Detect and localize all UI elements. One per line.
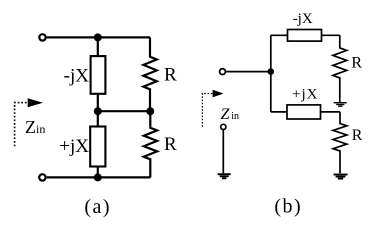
Zin arrow (a) dotted guide bbox=[15, 103, 28, 147]
svg-text:R: R bbox=[164, 134, 177, 155]
wire from -jX box to mid node bbox=[97, 94, 99, 112]
svg-text:R: R bbox=[351, 54, 362, 71]
wire top branch to -jX box (b) bbox=[271, 34, 288, 36]
reactance -jX box (a) bbox=[91, 56, 106, 94]
svg-text:+jX: +jX bbox=[59, 136, 89, 157]
svg-text:(a): (a) bbox=[84, 196, 111, 218]
reactance +jX box (b) bbox=[287, 105, 321, 119]
node top junction (a) bbox=[94, 33, 102, 41]
label R1 bbox=[164, 65, 177, 86]
caption (b) bbox=[274, 196, 302, 218]
wire from +jX box to bottom rail bbox=[97, 167, 99, 178]
caption (a) bbox=[84, 196, 111, 218]
label R3 bbox=[351, 54, 362, 71]
Zin arrow (b) dotted guide bbox=[202, 94, 213, 127]
svg-text:-jX: -jX bbox=[64, 65, 90, 86]
wire vertical branch stem (b) bbox=[270, 35, 272, 112]
wire from terminal to junction (b) bbox=[226, 71, 271, 73]
svg-text:-jX: -jX bbox=[293, 11, 313, 27]
resistor R2 (a bottom right) bbox=[144, 111, 157, 177]
wire bottom rail (a) bbox=[47, 176, 151, 178]
resistor R3 (b top) bbox=[333, 35, 347, 102]
label Zin (b) bbox=[221, 106, 239, 123]
label -jX (a) bbox=[64, 65, 90, 86]
svg-text:+jX: +jX bbox=[292, 87, 318, 103]
wire mid rail (a) bbox=[98, 110, 151, 112]
ground G1 (below R3) bbox=[334, 103, 347, 107]
terminal T1 (top-left open circle) bbox=[39, 34, 45, 40]
wire from -jX box to R3 (b) bbox=[322, 34, 340, 36]
svg-text:Z: Z bbox=[221, 106, 231, 123]
label +jX (b) bbox=[292, 87, 318, 103]
wire from +jX box to R4 (b) bbox=[321, 111, 341, 113]
Zin arrowhead (b) bbox=[213, 90, 224, 98]
reactance +jX box (a) bbox=[90, 127, 105, 167]
wire from lower terminal to ground (b) bbox=[222, 130, 224, 173]
resistor R1 (a top right) bbox=[143, 37, 156, 111]
node bottom junction (a) bbox=[94, 173, 102, 181]
svg-text:(b): (b) bbox=[274, 196, 302, 218]
wire from top node into -jX box bbox=[97, 37, 99, 56]
label +jX (a) bbox=[59, 136, 89, 157]
wire top rail (a) bbox=[47, 36, 150, 38]
wire bottom branch to +jX box (b) bbox=[271, 111, 287, 113]
terminal T3 (left open circle, b) bbox=[220, 69, 226, 75]
resistor R4 (b bottom) bbox=[333, 112, 347, 173]
ground G3 (below lower terminal) bbox=[218, 174, 231, 178]
node mid-left junction (a) bbox=[94, 107, 102, 115]
label R2 bbox=[164, 134, 177, 155]
svg-text:R: R bbox=[352, 127, 363, 144]
svg-text:in: in bbox=[36, 122, 45, 136]
label -jX (b) bbox=[293, 11, 313, 27]
svg-text:R: R bbox=[164, 65, 177, 86]
wire from mid node into +jX box bbox=[97, 111, 99, 127]
node input junction (b) bbox=[268, 68, 275, 75]
label R4 bbox=[352, 127, 363, 144]
label Zin (a) bbox=[25, 117, 45, 137]
ground G2 (below R4) bbox=[334, 175, 348, 179]
terminal T2 (bottom-left open circle) bbox=[39, 174, 45, 180]
node mid-right junction (a) bbox=[146, 107, 154, 115]
terminal T4 (lower open circle, b) bbox=[221, 124, 226, 129]
svg-text:Z: Z bbox=[25, 117, 36, 137]
reactance -jX box (b) bbox=[288, 30, 322, 42]
svg-text:in: in bbox=[231, 111, 239, 122]
Zin arrowhead (a) bbox=[28, 98, 43, 107]
